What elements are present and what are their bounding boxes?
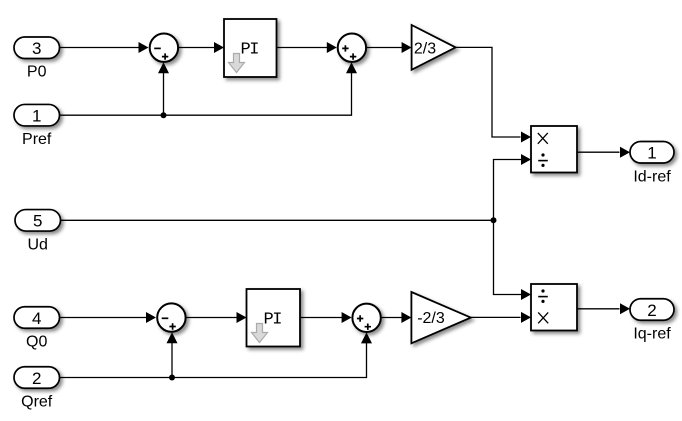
wire Divide1 to outport Id-ref — [577, 147, 630, 158]
svg-text:2/3: 2/3 — [414, 40, 436, 57]
wire Sum4 to Gain2 — [382, 312, 412, 323]
inport 3 P0 — [14, 37, 60, 81]
sum block Sum4 — [352, 304, 380, 332]
junction on Qref line — [169, 375, 175, 381]
wire Sum1 to PI1 — [179, 42, 224, 53]
wire Ud junction to Divide2 input 1 — [494, 220, 532, 300]
wire PI1 to Sum2 — [277, 42, 337, 53]
svg-text:2: 2 — [647, 301, 656, 320]
svg-text:Qref: Qref — [21, 393, 53, 410]
product block Divide2 — [531, 284, 577, 331]
outport 2 Iq-ref — [630, 299, 674, 343]
sum block Sum2 — [338, 34, 366, 62]
svg-text:PI: PI — [264, 311, 283, 330]
svg-text:3: 3 — [32, 39, 41, 58]
wire Qref to Sum4 south — [60, 332, 373, 377]
wire Q0 to Sum3 — [60, 312, 157, 323]
wire Pref to Sum2 south — [60, 62, 358, 115]
svg-text:Iq-ref: Iq-ref — [633, 326, 671, 343]
svg-text:4: 4 — [32, 309, 41, 328]
inport 1 Pref — [14, 104, 60, 148]
wire Ud junction to Divide1 input 2 — [494, 154, 532, 220]
outport 1 Id-ref — [630, 142, 674, 186]
svg-text:PI: PI — [241, 41, 260, 60]
svg-text:Pref: Pref — [22, 131, 52, 148]
wire Sum2 to Gain1 — [367, 42, 412, 53]
product block Divide1 — [531, 126, 577, 173]
svg-text:5: 5 — [33, 212, 42, 231]
svg-text:Ud: Ud — [27, 236, 47, 253]
wire Divide2 to outport Iq-ref — [577, 303, 630, 314]
svg-text:1: 1 — [32, 107, 41, 126]
inport 4 Q0 — [14, 307, 60, 351]
wire Sum3 to PI2 — [186, 312, 246, 323]
wire P0 to Sum1 — [60, 42, 149, 53]
wire Gain2 to Divide2 input 2 — [471, 312, 531, 323]
inport 2 Qref — [14, 367, 60, 411]
svg-text:2: 2 — [32, 369, 41, 388]
wire junction to Sum3 south — [167, 332, 178, 377]
junction on Pref line — [161, 112, 167, 118]
wire Gain1 to Divide1 input 1 — [456, 47, 531, 142]
gain block 2/3 — [412, 25, 456, 70]
svg-text:-2/3: -2/3 — [417, 310, 445, 327]
inport 5 Ud — [15, 210, 61, 254]
wire PI2 to Sum4 — [300, 312, 352, 323]
svg-text:Id-ref: Id-ref — [633, 168, 671, 185]
PI controller block PI2 — [247, 289, 301, 347]
wire Ud line — [61, 219, 494, 221]
svg-text:P0: P0 — [27, 64, 47, 81]
junction on Ud line — [491, 217, 497, 223]
PI controller block PI1 — [224, 19, 277, 77]
svg-text:Q0: Q0 — [26, 334, 47, 351]
sum block Sum3 — [157, 303, 185, 331]
gain block -2/3 — [411, 292, 470, 343]
svg-text:1: 1 — [647, 144, 656, 163]
sum block Sum1 — [150, 34, 178, 62]
wire junction to Sum1 south — [158, 62, 169, 115]
